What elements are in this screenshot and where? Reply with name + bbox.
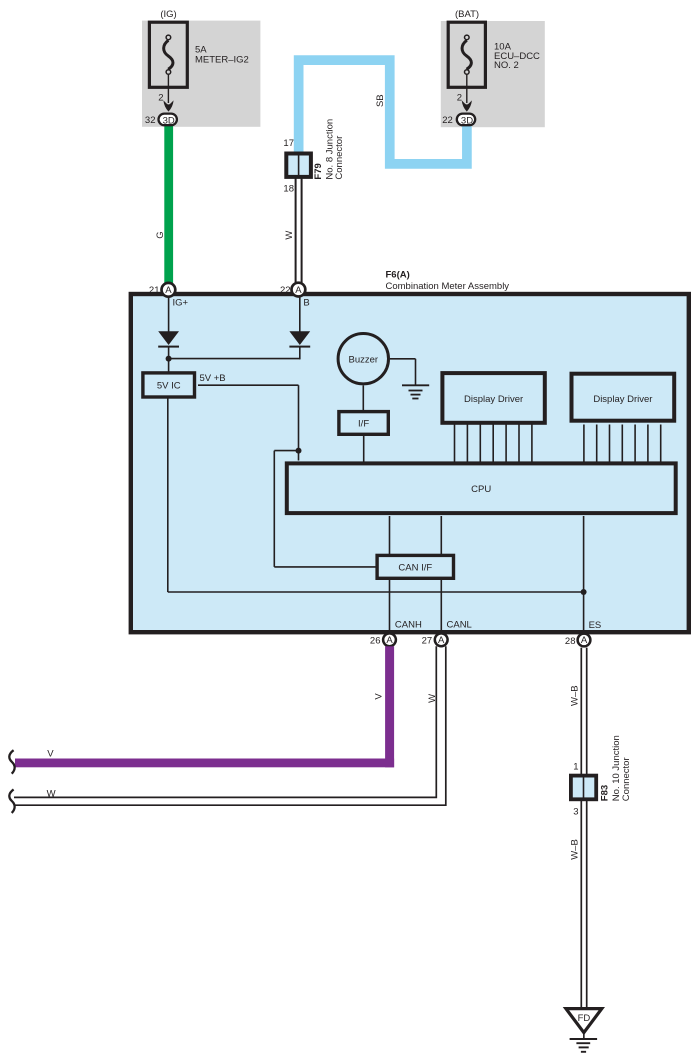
svg-text:2: 2 [457, 93, 462, 104]
svg-text:28: 28 [565, 636, 576, 647]
svg-text:27: 27 [422, 636, 433, 647]
svg-text:F79: F79 [313, 163, 324, 179]
svg-text:22: 22 [442, 115, 453, 126]
svg-text:W–B: W–B [570, 685, 581, 706]
svg-text:(BAT): (BAT) [455, 9, 479, 20]
svg-text:Combination Meter Assembly: Combination Meter Assembly [386, 281, 510, 292]
svg-text:W–B: W–B [570, 839, 581, 860]
svg-text:FD: FD [578, 1013, 591, 1024]
svg-text:Connector: Connector [621, 757, 632, 801]
svg-text:1: 1 [573, 762, 578, 773]
svg-text:2: 2 [158, 93, 163, 104]
svg-text:W: W [47, 788, 56, 799]
svg-text:METER–IG2: METER–IG2 [195, 55, 249, 66]
svg-text:22: 22 [280, 285, 291, 296]
svg-text:CANH: CANH [395, 619, 422, 630]
svg-text:CPU: CPU [471, 484, 491, 495]
svg-text:32: 32 [145, 115, 156, 126]
svg-text:F83: F83 [600, 785, 611, 801]
svg-text:A: A [438, 635, 445, 646]
svg-text:3D: 3D [163, 115, 175, 126]
svg-text:W: W [284, 231, 295, 240]
svg-text:A: A [386, 635, 393, 646]
svg-text:SB: SB [375, 94, 386, 107]
svg-text:A: A [581, 635, 588, 646]
svg-text:ES: ES [589, 620, 602, 631]
svg-text:Display Driver: Display Driver [464, 394, 523, 405]
svg-text:17: 17 [283, 138, 294, 149]
svg-text:3: 3 [573, 807, 578, 818]
svg-text:W: W [427, 694, 438, 703]
svg-text:(IG): (IG) [160, 9, 176, 20]
svg-text:3D: 3D [461, 115, 473, 126]
svg-text:Buzzer: Buzzer [349, 354, 379, 365]
svg-text:Connector: Connector [334, 136, 345, 180]
svg-text:CAN I/F: CAN I/F [398, 562, 432, 573]
svg-text:V: V [47, 748, 54, 759]
svg-text:G: G [155, 231, 166, 238]
svg-text:I/F: I/F [358, 419, 369, 430]
svg-text:5V IC: 5V IC [157, 381, 181, 392]
svg-text:Display Driver: Display Driver [593, 394, 652, 405]
svg-text:B: B [303, 297, 309, 308]
svg-text:IG+: IG+ [173, 297, 189, 308]
svg-text:21: 21 [149, 285, 160, 296]
svg-text:V: V [373, 693, 384, 700]
svg-text:A: A [165, 285, 172, 296]
svg-text:18: 18 [283, 184, 294, 195]
svg-text:F6(A): F6(A) [386, 270, 410, 281]
svg-text:5V +B: 5V +B [200, 373, 226, 384]
svg-text:26: 26 [370, 636, 381, 647]
svg-text:CANL: CANL [447, 619, 472, 630]
svg-text:NO. 2: NO. 2 [494, 60, 519, 71]
svg-text:A: A [295, 285, 302, 296]
